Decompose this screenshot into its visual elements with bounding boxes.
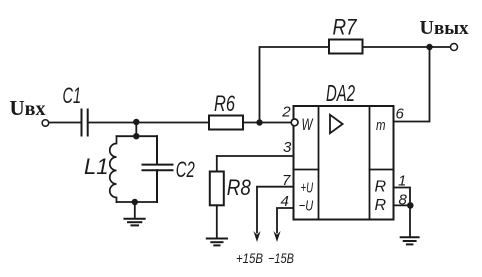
node junction pin1/pin8 <box>407 202 414 209</box>
svg-text:+15В: +15В <box>236 250 263 266</box>
svg-text:R8: R8 <box>227 175 252 200</box>
ground (tank) <box>125 219 145 226</box>
svg-text:R: R <box>375 197 387 214</box>
svg-text:DA2: DA2 <box>326 80 355 106</box>
svg-text:Uвых: Uвых <box>420 17 470 39</box>
svg-text:8: 8 <box>399 192 408 209</box>
wire tank bottom to ground <box>134 202 136 218</box>
wire R8 to ground <box>216 205 218 238</box>
svg-text:2: 2 <box>281 104 291 121</box>
svg-text:4: 4 <box>281 193 289 210</box>
wire output riser to pin 6 <box>394 47 430 122</box>
svg-text:+U: +U <box>301 180 314 197</box>
capacitor C1 <box>82 110 88 136</box>
resistor R7 <box>329 40 363 54</box>
inductor L1 <box>110 136 117 202</box>
wire C1 to R6 <box>89 122 209 124</box>
svg-text:7: 7 <box>282 172 291 189</box>
power arrow +15V <box>253 231 260 242</box>
node junction tank bottom <box>132 199 138 205</box>
capacitor C2 <box>143 136 173 202</box>
wire tank top rail <box>117 135 158 137</box>
svg-text:m: m <box>376 117 386 134</box>
wire pin 3 drop to R8 <box>216 156 218 172</box>
svg-text:W: W <box>302 115 314 134</box>
node junction tank top <box>133 133 139 139</box>
wire junction to tank top <box>135 122 137 136</box>
wire pin 8 to ground <box>409 205 411 236</box>
svg-text:3: 3 <box>283 139 292 156</box>
wire pin 1 <box>394 188 411 206</box>
resistor R8 <box>210 172 224 206</box>
wire pin 4 <box>277 208 293 233</box>
svg-text:R7: R7 <box>333 15 358 40</box>
power arrow -15V <box>273 231 280 242</box>
node junction R6 output / feedback <box>256 119 262 125</box>
node junction main wire / tank <box>133 119 139 125</box>
svg-text:R6: R6 <box>214 91 236 116</box>
op-amp DA2 body <box>294 106 394 220</box>
ground (DA2) <box>401 237 419 244</box>
resistor R6 <box>209 116 243 130</box>
wire pin 3 <box>217 155 293 157</box>
wire pin 8 <box>394 204 411 206</box>
wire input terminal to C1 <box>49 122 81 124</box>
ground (R8) <box>207 239 227 246</box>
svg-text:L1: L1 <box>84 154 108 179</box>
svg-text:C2: C2 <box>176 157 195 182</box>
node junction output <box>426 44 432 50</box>
svg-text:1: 1 <box>398 173 406 190</box>
wire tank bottom rail <box>117 201 158 203</box>
svg-text:Uвх: Uвх <box>10 96 46 120</box>
wire R6 to op-amp pin 2 <box>243 122 292 124</box>
svg-text:−15В: −15В <box>268 250 294 266</box>
svg-text:C1: C1 <box>63 83 82 108</box>
op-amp pin 2 inverting input circle <box>291 119 298 126</box>
node Uvyx output terminal <box>451 44 458 51</box>
wire R7 to output node <box>363 46 451 48</box>
op-amp triangle symbol <box>330 115 343 133</box>
wire pin 7 <box>257 187 293 233</box>
svg-text:−U: −U <box>299 197 313 214</box>
node Uvx input terminal <box>42 120 49 127</box>
svg-text:R: R <box>375 179 387 196</box>
svg-text:6: 6 <box>396 106 405 123</box>
wire feedback riser <box>260 47 330 123</box>
